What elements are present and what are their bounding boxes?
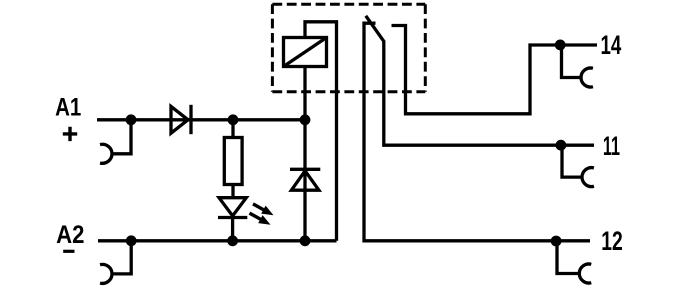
svg-text:11: 11 <box>603 131 620 161</box>
svg-text:12: 12 <box>601 226 623 256</box>
svg-text:A2: A2 <box>56 221 84 249</box>
svg-text:14: 14 <box>601 30 622 60</box>
svg-text:A1: A1 <box>55 94 81 122</box>
